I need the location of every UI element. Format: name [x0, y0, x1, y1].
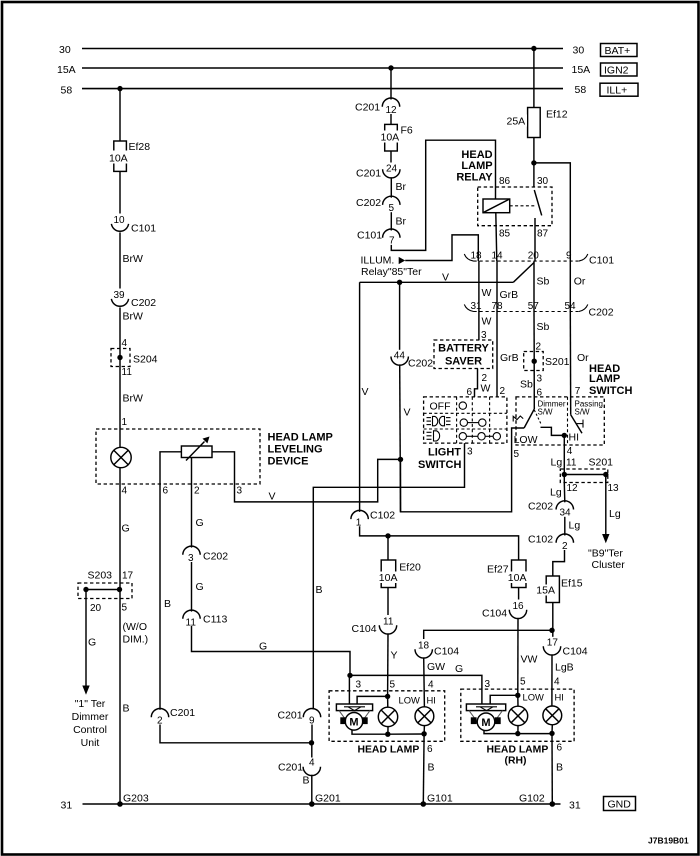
head lamp leveling device box — [96, 429, 260, 484]
wire B RH pin 6 to G102 — [552, 733, 563, 804]
svg-text:2: 2 — [194, 486, 200, 497]
svg-text:18: 18 — [418, 641, 430, 652]
LH low bulb — [378, 696, 397, 734]
wire BrW — [120, 307, 143, 349]
svg-text:C202: C202 — [356, 197, 381, 209]
wire LH pin 3 — [349, 675, 361, 704]
svg-text:V: V — [362, 386, 369, 398]
bus 30 — [59, 44, 584, 57]
svg-text:6: 6 — [427, 744, 433, 755]
svg-text:C102: C102 — [370, 510, 395, 522]
svg-text:C201: C201 — [278, 762, 303, 774]
svg-text:17: 17 — [122, 571, 134, 582]
wire V to junction — [400, 364, 411, 511]
fuse Ef12 25A — [505, 108, 568, 138]
svg-text:4: 4 — [122, 486, 128, 497]
svg-text:C104: C104 — [563, 646, 588, 658]
light switch parking row contacts — [460, 419, 486, 426]
svg-text:LEVELING: LEVELING — [268, 444, 323, 456]
wire C102-1 to head lamp feed — [360, 526, 519, 560]
svg-text:"B9"Ter: "B9"Ter — [588, 548, 623, 560]
svg-text:24: 24 — [386, 164, 398, 175]
connector C201 pin 2 — [151, 707, 195, 727]
lamp bulb (leveling illumination) — [111, 447, 131, 467]
terminal box IGN2 — [601, 63, 638, 77]
node junction on 58 bus — [117, 86, 122, 91]
wire RH lamp ground rail — [518, 733, 552, 735]
svg-text:6: 6 — [163, 486, 169, 497]
head lamp switch title — [589, 363, 632, 397]
LH head lamp box — [329, 691, 445, 742]
wire relay 85 to C101 pin 14 — [496, 213, 497, 261]
svg-text:4: 4 — [554, 677, 560, 688]
wire B to G201 — [303, 775, 312, 805]
svg-text:4: 4 — [309, 758, 315, 769]
svg-text:GrB: GrB — [500, 352, 519, 364]
wire pot pin 2 — [192, 458, 204, 548]
LH hi bulb — [415, 707, 434, 734]
wire GrB below C101-14 — [497, 261, 518, 311]
head lamp switch box (dimmer / passing) — [516, 397, 604, 445]
svg-text:(W/O: (W/O — [123, 621, 148, 633]
wire Sb below C101-20 — [534, 261, 550, 311]
node junction V bus — [397, 280, 402, 285]
svg-text:Unit: Unit — [81, 737, 100, 749]
light switch headlamp row contacts — [459, 433, 500, 440]
svg-text:30: 30 — [537, 176, 549, 187]
svg-text:14: 14 — [492, 251, 504, 262]
svg-text:C101: C101 — [131, 223, 156, 235]
relay pin labels 86 30 85 87 — [499, 176, 549, 240]
svg-text:Sb: Sb — [537, 276, 550, 288]
passing S/W label — [575, 400, 603, 417]
node junction LH low — [385, 694, 390, 699]
head lamp leveling device title — [268, 432, 333, 468]
wire diagonal V to C101 pin 20 — [513, 263, 534, 283]
svg-text:C104: C104 — [482, 608, 507, 620]
svg-text:Lg: Lg — [551, 457, 563, 469]
svg-text:13: 13 — [608, 483, 620, 494]
connector C202 pin 5 — [356, 196, 400, 214]
svg-text:Or: Or — [574, 276, 586, 288]
connector C101 pin 10 — [111, 215, 156, 235]
node junction relay 30 — [531, 160, 536, 165]
svg-text:Sb: Sb — [537, 321, 550, 333]
svg-text:3: 3 — [237, 486, 243, 497]
svg-text:F6: F6 — [401, 125, 413, 137]
connector C202 pin 34 — [528, 501, 574, 519]
svg-text:16: 16 — [513, 601, 525, 612]
passing switch blade — [571, 415, 583, 434]
svg-text:C201: C201 — [356, 168, 381, 180]
node junction G — [347, 673, 352, 678]
connector C201 pin 24 — [356, 164, 400, 180]
wire W below C101-18 — [479, 261, 492, 311]
terminal box GND — [604, 797, 636, 811]
svg-text:SAVER: SAVER — [445, 356, 482, 368]
svg-text:V: V — [404, 407, 411, 419]
svg-text:18: 18 — [471, 251, 483, 262]
svg-text:C201: C201 — [278, 710, 303, 722]
wire Br — [391, 178, 406, 198]
wire LOW contact to V node — [401, 428, 538, 512]
svg-text:S201: S201 — [589, 457, 614, 469]
svg-text:BATTERY: BATTERY — [438, 343, 489, 355]
svg-text:G: G — [122, 523, 130, 535]
svg-text:C202: C202 — [131, 297, 156, 309]
svg-text:39: 39 — [114, 290, 126, 301]
svg-text:HI: HI — [555, 692, 564, 703]
wire VW to RH low bulb — [518, 618, 538, 695]
wire Ef12 to relay — [533, 138, 535, 188]
node junction RH low — [515, 693, 520, 698]
svg-text:J7B19B01: J7B19B01 — [648, 836, 689, 846]
svg-text:B: B — [164, 598, 171, 610]
svg-text:G: G — [196, 581, 204, 593]
svg-text:Sb: Sb — [520, 379, 533, 391]
wire Lg to C102 pin 2 — [565, 517, 581, 536]
light switch box — [424, 397, 507, 443]
svg-text:VW: VW — [521, 654, 538, 666]
potentiometer (leveling adjuster) — [181, 437, 212, 461]
svg-text:W: W — [481, 383, 491, 395]
svg-text:C101: C101 — [589, 255, 614, 267]
svg-text:V: V — [269, 491, 276, 503]
svg-text:30: 30 — [573, 45, 585, 57]
wire W battery saver pin 2 to light switch pin 6 — [467, 369, 491, 399]
svg-text:Br: Br — [396, 216, 407, 228]
wire BrW to leveling device pin 1 — [120, 367, 143, 448]
connector C202 pin 44 — [391, 351, 433, 370]
svg-text:C202: C202 — [528, 501, 553, 513]
svg-text:LOW: LOW — [523, 692, 545, 703]
svg-text:GND: GND — [608, 799, 632, 811]
wire B C201-2 to junction — [160, 725, 312, 743]
svg-text:12: 12 — [567, 483, 579, 494]
wire LgB to RH hi bulb — [552, 655, 574, 706]
svg-text:7: 7 — [389, 236, 395, 247]
svg-text:BrW: BrW — [123, 253, 144, 265]
svg-text:SWITCH: SWITCH — [589, 385, 632, 397]
svg-text:S/W: S/W — [538, 408, 554, 417]
battery saver box — [434, 340, 493, 369]
svg-text:C201: C201 — [170, 707, 195, 719]
dimmer switch blade — [524, 409, 541, 428]
svg-text:31: 31 — [569, 800, 581, 812]
wire Ef20 to C104 pin 11 — [387, 588, 389, 616]
svg-text:OFF: OFF — [430, 401, 451, 413]
svg-text:2: 2 — [500, 386, 506, 397]
connector C102 pin 1 — [351, 510, 395, 529]
connector C102 pin 2 — [528, 534, 574, 553]
svg-text:B: B — [303, 775, 310, 787]
RH head lamp title — [487, 745, 549, 767]
label ILLUM. Relay"85"Ter — [361, 255, 423, 279]
svg-text:C102: C102 — [528, 534, 553, 546]
svg-text:LAMP: LAMP — [589, 373, 620, 385]
svg-text:Control: Control — [73, 724, 107, 736]
svg-text:Ef27: Ef27 — [487, 563, 509, 575]
svg-text:W: W — [482, 316, 492, 328]
wire W below C202-31 to battery saver pin 3 — [479, 312, 492, 342]
ground G101 — [421, 793, 453, 807]
wire Lg to B9 Ter cluster — [606, 475, 621, 535]
relay contact blade 30-87 — [534, 190, 541, 261]
svg-text:GrB: GrB — [500, 289, 519, 301]
wire RH motor to ground rail — [484, 730, 518, 733]
label "1" Ter Dimmer Control Unit — [72, 698, 109, 749]
svg-text:11: 11 — [122, 367, 133, 378]
svg-text:3: 3 — [356, 680, 362, 691]
svg-text:4: 4 — [567, 446, 573, 457]
svg-text:C101: C101 — [357, 230, 382, 242]
dimmer wiper hook — [513, 416, 523, 422]
svg-text:3: 3 — [537, 374, 543, 385]
node junction V — [398, 457, 403, 462]
svg-text:W: W — [482, 287, 492, 299]
node junction B — [309, 740, 314, 745]
wire bulb to pin 4 — [120, 468, 130, 583]
svg-text:58: 58 — [575, 84, 587, 96]
svg-text:(RH): (RH) — [505, 756, 527, 767]
svg-text:LOW: LOW — [514, 434, 538, 446]
arrow to B9 Ter cluster — [602, 534, 609, 543]
svg-text:15A: 15A — [57, 64, 76, 76]
svg-text:4: 4 — [428, 680, 434, 691]
svg-text:15A: 15A — [536, 585, 555, 597]
svg-text:G: G — [88, 637, 96, 649]
svg-text:S204: S204 — [133, 354, 158, 366]
svg-text:7: 7 — [575, 386, 581, 397]
svg-text:44: 44 — [394, 351, 406, 362]
node junction HI feed — [549, 628, 554, 633]
wire 58 bus to fuse Ef28 — [119, 89, 121, 141]
svg-text:6: 6 — [557, 743, 563, 754]
wire V to C102 pin 1 — [359, 282, 361, 512]
wire relay 30 node to C101 pin 9 — [534, 163, 570, 261]
svg-text:Br: Br — [396, 181, 407, 193]
svg-text:54: 54 — [565, 301, 577, 312]
connector C113 pin 11 — [183, 610, 228, 628]
wire light switch pin 3 (B) — [313, 443, 473, 709]
relay coil — [483, 199, 510, 213]
light switch parking row icon — [427, 416, 451, 425]
svg-text:87: 87 — [537, 229, 549, 240]
svg-text:DEVICE: DEVICE — [268, 456, 309, 468]
wire LH lamp ground rail — [388, 733, 424, 735]
svg-text:HEAD LAMP: HEAD LAMP — [487, 745, 549, 756]
relay link coil to contact — [510, 205, 536, 207]
wire to fuse F6 — [390, 114, 392, 124]
label (W/O DIM.) — [123, 621, 149, 646]
svg-text:1: 1 — [122, 417, 128, 428]
svg-text:86: 86 — [499, 176, 511, 187]
wire G to dimmer control unit — [86, 599, 96, 686]
svg-text:30: 30 — [59, 44, 71, 56]
bus 58 — [61, 84, 587, 97]
svg-text:LOW: LOW — [399, 695, 421, 706]
node junction RH lamp ground — [515, 731, 520, 736]
svg-text:C104: C104 — [434, 646, 459, 658]
wire ILLUM to C101 pin 18 — [405, 235, 478, 261]
node junction head lamp feed — [385, 533, 390, 538]
svg-text:BrW: BrW — [123, 311, 144, 323]
fuse Ef28 10A — [105, 141, 150, 171]
bus 31 ground — [61, 800, 581, 812]
svg-text:Relay"85"Ter: Relay"85"Ter — [361, 266, 422, 278]
svg-text:V: V — [442, 272, 449, 284]
svg-text:GW: GW — [427, 661, 445, 673]
svg-text:G: G — [196, 517, 204, 529]
connector row C202 pins 31 78 57 54 — [464, 301, 613, 318]
node junction LH lamp ground — [385, 732, 390, 737]
svg-text:20: 20 — [528, 251, 540, 262]
svg-text:31: 31 — [471, 301, 483, 312]
svg-text:9: 9 — [566, 251, 572, 262]
svg-text:G: G — [455, 663, 463, 675]
node junction LH pin 6 — [421, 731, 426, 736]
svg-text:78: 78 — [492, 301, 504, 312]
svg-text:Cluster: Cluster — [592, 559, 626, 571]
fuse Ef15 15A — [536, 576, 583, 603]
light switch title — [418, 447, 461, 471]
fuse Ef27 10A — [487, 560, 529, 588]
wire junction to C201 pin 4 — [311, 743, 313, 758]
wire G to head lamps — [192, 626, 351, 675]
wire B to ground G203 — [120, 599, 130, 805]
connector C202 pin 3 — [183, 546, 228, 564]
wire GrB below C202-78 to light switch pin 2 — [497, 312, 519, 398]
svg-text:M: M — [349, 717, 358, 729]
svg-text:Lg: Lg — [569, 520, 581, 532]
svg-text:5: 5 — [520, 677, 526, 688]
svg-text:10A: 10A — [508, 572, 527, 584]
fuse F6 10A — [378, 124, 413, 151]
svg-text:85: 85 — [499, 229, 511, 240]
wire 30 bus to fuse Ef12 — [533, 49, 535, 108]
svg-text:G: G — [259, 641, 267, 653]
wire Br — [391, 212, 406, 230]
svg-text:5: 5 — [514, 449, 520, 460]
light switch OFF row — [430, 401, 467, 413]
wire Lg S201 to C202 pin 34 — [563, 483, 566, 502]
label B9 Ter Cluster — [588, 548, 625, 572]
wire G to RH head lamp pin 3 — [350, 663, 482, 704]
connector C104 pin 18 — [415, 641, 459, 658]
ground G102 — [519, 793, 555, 807]
svg-text:Lg: Lg — [550, 487, 562, 499]
wire Or below C202-54 to head lamp switch pin 7 — [570, 312, 589, 415]
svg-text:Ef12: Ef12 — [546, 109, 568, 121]
svg-text:4: 4 — [122, 338, 128, 349]
svg-text:20: 20 — [90, 603, 102, 614]
svg-text:HEAD LAMP: HEAD LAMP — [268, 432, 333, 444]
svg-text:BAT+: BAT+ — [605, 45, 631, 57]
wire Ef15 to junction — [552, 603, 554, 637]
wire G — [192, 562, 204, 612]
svg-text:Dimmer: Dimmer — [72, 711, 109, 723]
svg-text:1: 1 — [356, 518, 362, 529]
svg-text:11: 11 — [566, 458, 577, 469]
wire Y to LH low bulb — [388, 634, 398, 697]
svg-text:5: 5 — [390, 680, 396, 691]
svg-text:11: 11 — [383, 617, 394, 628]
wire Ef27 to C104 pin 16 — [518, 588, 520, 600]
light switch internal grid — [424, 397, 507, 443]
wire C102-2 to fuse Ef15 — [553, 550, 565, 576]
splice S201 (11 12 13) — [560, 457, 619, 495]
svg-text:5: 5 — [122, 603, 128, 614]
svg-text:LgB: LgB — [555, 662, 574, 674]
wire to fuse Ef20 — [387, 536, 389, 560]
arrow to dimmer control unit — [82, 686, 89, 695]
svg-text:57: 57 — [528, 301, 540, 312]
connector C201 pin 12 — [355, 98, 400, 116]
svg-text:G102: G102 — [519, 793, 545, 805]
svg-text:G201: G201 — [315, 793, 341, 805]
svg-text:LAMP: LAMP — [461, 160, 492, 172]
svg-text:Y: Y — [391, 650, 398, 662]
LH leveling motor — [336, 704, 372, 730]
svg-text:C104: C104 — [352, 623, 377, 635]
wire V junction to leveling device pin 3 — [212, 452, 401, 503]
svg-text:15A: 15A — [572, 64, 591, 76]
wire HI feed to C104 pin 18 — [424, 630, 552, 639]
svg-text:S/W: S/W — [575, 408, 591, 417]
svg-text:Ef20: Ef20 — [399, 562, 421, 574]
wire Br to relay coil pin 86 — [391, 140, 495, 250]
wire BrW — [120, 232, 143, 288]
wire RH motor feed — [490, 695, 518, 704]
svg-text:SWITCH: SWITCH — [418, 459, 461, 471]
connector C104 pin 16 — [482, 601, 527, 620]
head lamp relay title — [456, 149, 493, 184]
wire F6 to C201 pin 24 — [390, 151, 392, 163]
relay box — [478, 187, 552, 226]
fuse Ef20 10A — [379, 560, 422, 588]
svg-text:ILLUM.: ILLUM. — [361, 255, 395, 267]
ground G201 — [309, 793, 341, 807]
svg-text:Ef28: Ef28 — [129, 141, 151, 153]
svg-text:HI: HI — [569, 432, 580, 444]
wire Or below C101-9 — [570, 261, 586, 311]
svg-text:"1" Ter: "1" Ter — [75, 698, 106, 710]
svg-text:M: M — [481, 717, 490, 729]
wire 15A bus to C201 pin 12 — [390, 68, 392, 100]
svg-text:BrW: BrW — [123, 393, 144, 405]
wire LH motor feed — [357, 696, 388, 704]
dimmer S/W label — [538, 400, 566, 417]
connector C201 pin 4 — [278, 758, 321, 776]
wire B LH pin 6 to G101 — [423, 734, 434, 804]
svg-text:HEAD LAMP: HEAD LAMP — [358, 745, 420, 756]
svg-text:S201: S201 — [545, 356, 570, 368]
node junction HI — [562, 433, 567, 438]
RH head lamp box — [461, 689, 574, 741]
svg-text:ILL+: ILL+ — [607, 85, 628, 97]
RH low bulb — [508, 695, 527, 733]
svg-text:10A: 10A — [109, 153, 128, 165]
svg-text:C202: C202 — [589, 307, 614, 319]
svg-text:10A: 10A — [379, 572, 398, 584]
svg-text:Lg: Lg — [609, 508, 621, 520]
wire LH motor to ground rail — [352, 730, 388, 734]
LH LOW HI labels — [399, 695, 436, 706]
wire V bus from ILLUM node — [360, 272, 514, 284]
wire Sb S201 to dimmer switch pin 6 — [520, 371, 543, 410]
splice S204 — [111, 349, 158, 367]
svg-text:G101: G101 — [427, 793, 453, 805]
